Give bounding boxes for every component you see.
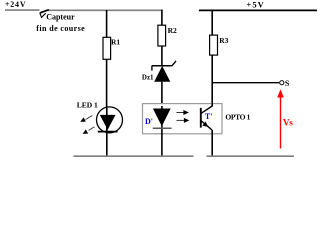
Vs arrow shaft: [280, 96, 282, 149]
opto light arrow 2: [177, 119, 185, 121]
svg-text:D': D': [145, 117, 153, 126]
resistor R2: [158, 25, 166, 46]
svg-text:Capteur: Capteur: [46, 13, 75, 22]
zener Dz1 cathode bar: [152, 65, 172, 67]
T' emitter: [201, 121, 212, 130]
svg-text:T': T': [205, 112, 213, 121]
LED emission arrow 2: [89, 127, 95, 131]
phototransistor T' base bar: [200, 108, 202, 128]
svg-text:OPTO 1: OPTO 1: [225, 112, 250, 121]
bottom rail left (0V of 24V side): [74, 155, 194, 157]
svg-text:LED 1: LED 1: [77, 100, 98, 109]
LED emission arrow 1: [86, 116, 93, 120]
LED cathode bar: [98, 131, 118, 133]
svg-text:fin de course: fin de course: [36, 24, 85, 33]
switch lever (capteur fin de course): [40, 10, 49, 13]
wire: S output: [212, 82, 279, 84]
wire: +5V to R3: [211, 10, 213, 35]
wire through LED: [106, 108, 108, 131]
+5V rail: [199, 9, 317, 11]
LED triangle: [100, 115, 116, 130]
wire: +24V rail to R1: [106, 10, 108, 38]
opto coupler box: [143, 104, 223, 134]
svg-text:Dz1: Dz1: [142, 74, 154, 82]
wire: R2 to zener: [161, 46, 163, 66]
svg-text:S: S: [285, 79, 290, 88]
wire: LED to bottom rail: [106, 131, 108, 157]
opto light arrow 1: [177, 112, 184, 114]
resistor R1: [103, 37, 111, 59]
zener left tick: [151, 66, 153, 71]
T' collector: [201, 106, 212, 114]
switch actuator fork: [40, 13, 46, 18]
resistor R3: [210, 35, 218, 55]
zener Dz1 triangle: [154, 66, 170, 82]
svg-text:R3: R3: [219, 36, 228, 45]
Vs arrowhead: [277, 89, 284, 97]
svg-text:R2: R2: [168, 26, 177, 35]
svg-text:+5V: +5V: [246, 0, 265, 9]
wire: emitter to bottom rail: [211, 130, 213, 157]
svg-text:Vs: Vs: [283, 118, 293, 128]
opto diode D' wire: [161, 106, 163, 157]
+24V rail left segment: [5, 9, 40, 11]
opto diode D' cathode bar: [153, 127, 172, 129]
LED D1 circle: [97, 107, 123, 133]
bottom rail right (0V of 5V side): [207, 155, 295, 157]
node S terminal circle: [280, 81, 284, 85]
opto diode D' triangle: [153, 109, 171, 127]
svg-text:R1: R1: [111, 37, 120, 46]
svg-text:+24V: +24V: [5, 0, 27, 9]
zener right tick: [172, 61, 176, 66]
T' emitter arrowhead: [202, 122, 208, 127]
wire: zener to opto diode: [161, 82, 163, 109]
wire: +24V corner to R2: [161, 10, 163, 26]
wire: R3 to collector: [211, 55, 213, 106]
wire: R1 to LED: [106, 59, 108, 108]
+24V rail right segment: [48, 9, 163, 11]
